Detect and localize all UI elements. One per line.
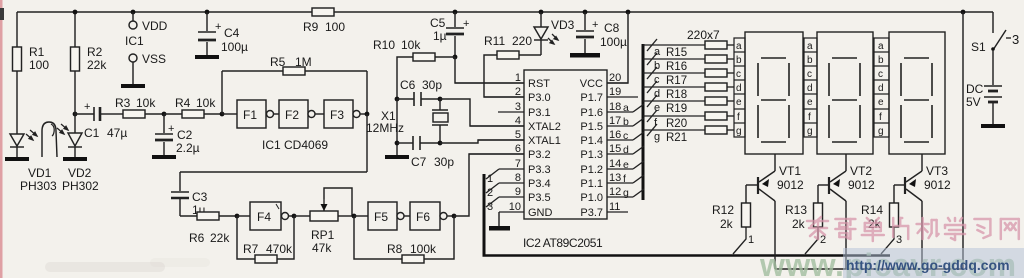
svg-text:a: a: [623, 102, 629, 114]
svg-text:2k: 2k: [720, 217, 734, 231]
wire R2 drop: [74, 12, 76, 47]
svg-text:PH302: PH302: [62, 179, 99, 193]
collector common rail: [775, 268, 963, 270]
svg-text:d: d: [878, 83, 884, 94]
svg-text:R2: R2: [87, 45, 103, 59]
svg-text:220x7: 220x7: [687, 28, 720, 42]
svg-text:P1.5: P1.5: [580, 121, 603, 133]
svg-text:R9: R9: [303, 20, 319, 34]
svg-text:R11: R11: [484, 34, 505, 48]
svg-text:IC1 CD4069: IC1 CD4069: [262, 138, 328, 152]
svg-text:1M: 1M: [295, 55, 312, 69]
svg-text:1µ: 1µ: [433, 29, 447, 43]
transistor VT2 9012: [818, 154, 846, 203]
svg-text:12: 12: [609, 186, 621, 198]
wire P1.6 into segment bus, net a: [633, 104, 644, 112]
resistor R6: [197, 212, 219, 220]
segment row g: wire, slash, resistor R21: [643, 124, 734, 136]
svg-text:20: 20: [609, 72, 621, 84]
node F3 output: [365, 112, 370, 117]
wire F4 to RP1: [294, 215, 310, 217]
RP1 wiper arrow: [323, 199, 325, 211]
capacitor C2: [155, 114, 173, 155]
svg-text:c: c: [807, 69, 812, 80]
IC2 left pin stubs: [455, 83, 524, 212]
wire rail junction to collector rail: [961, 10, 966, 15]
svg-text:C8: C8: [604, 21, 620, 35]
ground C4: [195, 55, 219, 59]
svg-text:30p: 30p: [422, 78, 442, 92]
svg-text:P1.7: P1.7: [580, 92, 603, 104]
svg-text:VD2: VD2: [68, 166, 92, 180]
svg-text:R7: R7: [243, 242, 259, 256]
resistor R4: [182, 110, 204, 118]
svg-text:2: 2: [487, 187, 493, 199]
svg-text:R15: R15: [666, 47, 687, 59]
node F1 input: [220, 112, 225, 117]
svg-text:+: +: [168, 123, 174, 135]
svg-text:C4: C4: [224, 26, 240, 40]
svg-text:R18: R18: [666, 89, 687, 101]
svg-text:R4: R4: [175, 96, 191, 110]
LED VD3: [539, 10, 544, 15]
display DS3 pin column: [874, 38, 889, 137]
svg-text:e: e: [623, 159, 629, 171]
inverter F4: [237, 202, 294, 230]
node C2: [162, 112, 167, 117]
svg-text:g: g: [623, 187, 629, 199]
ground GND pin10: [498, 212, 500, 226]
svg-text:VDD: VDD: [142, 19, 168, 33]
svg-text:VD1: VD1: [28, 166, 52, 180]
svg-text:19: 19: [609, 86, 621, 98]
svg-text:C3: C3: [192, 190, 208, 204]
display DS2 digit segments: [829, 58, 860, 142]
IC2 right pin stubs: [607, 83, 638, 212]
svg-text:2k: 2k: [792, 217, 806, 231]
wire R10 left to ground trunk: [397, 57, 413, 99]
svg-text:+: +: [592, 19, 598, 31]
svg-text:R1: R1: [29, 45, 45, 59]
svg-text:1: 1: [487, 173, 493, 185]
wire P1.5 into segment bus, net b: [633, 118, 644, 126]
wire F6 output to P3.2: [454, 154, 524, 216]
svg-text:3: 3: [1012, 32, 1019, 47]
svg-text:47k: 47k: [312, 241, 332, 255]
node C7 right: [438, 141, 443, 146]
capacitor C5: [453, 10, 458, 15]
display DS1 pin column: [734, 38, 745, 137]
wire RP1 to F5 node: [338, 215, 354, 217]
svg-text:C1: C1: [84, 126, 100, 140]
svg-text:R5: R5: [270, 55, 286, 69]
svg-text:220: 220: [512, 34, 532, 48]
svg-text:100k: 100k: [410, 242, 437, 256]
resistor R13: [814, 203, 823, 227]
node RST: [453, 55, 458, 60]
wire R7 loop: [237, 216, 255, 259]
svg-text:10: 10: [509, 201, 521, 213]
svg-text:100µ: 100µ: [221, 40, 248, 54]
svg-text:22k: 22k: [87, 58, 107, 72]
svg-text:a: a: [736, 41, 742, 52]
svg-text:S1: S1: [971, 40, 986, 54]
svg-text:C6: C6: [400, 78, 416, 92]
svg-text:RP1: RP1: [311, 228, 335, 242]
display DS3 digit segments: [901, 58, 932, 142]
segment row c: wire, slash, resistor R17: [643, 67, 734, 79]
svg-text:10k: 10k: [136, 96, 156, 110]
svg-text:18: 18: [609, 101, 621, 113]
svg-text:R6: R6: [189, 231, 205, 245]
wire R5 loop left: [221, 71, 223, 114]
svg-text:http://www.go-gddq.com: http://www.go-gddq.com: [846, 257, 1010, 273]
svg-text:9012: 9012: [848, 178, 875, 192]
segment row d: wire, slash, resistor R18: [643, 81, 734, 93]
svg-text:1: 1: [748, 234, 754, 246]
svg-text:+: +: [84, 101, 90, 113]
resistor R9 on rail: [312, 8, 334, 16]
svg-text:100µ: 100µ: [600, 35, 627, 49]
svg-text:3: 3: [515, 101, 521, 113]
scan edge artifact left: [0, 0, 3, 278]
wire R5 loop top: [222, 70, 367, 72]
svg-text:VD3: VD3: [551, 18, 575, 32]
svg-text:b: b: [736, 55, 742, 66]
VSS symbol: [129, 54, 137, 62]
svg-text:R19: R19: [666, 103, 687, 115]
svg-text:3: 3: [896, 234, 902, 246]
svg-text:9: 9: [515, 186, 521, 198]
svg-text:R12: R12: [712, 203, 734, 217]
svg-text:R3: R3: [115, 96, 131, 110]
svg-text:5: 5: [515, 129, 521, 141]
wire P3.4 into bus: [486, 183, 499, 193]
svg-text:2.2µ: 2.2µ: [176, 141, 200, 155]
VD1 light arrows: [26, 130, 37, 140]
svg-text:VT2: VT2: [850, 164, 872, 178]
svg-text:470k: 470k: [266, 242, 293, 256]
wire R5 loop right: [366, 71, 368, 114]
svg-text:F6: F6: [416, 210, 430, 224]
svg-text:11: 11: [609, 201, 620, 213]
svg-text:PH303: PH303: [20, 179, 57, 193]
resistor R5: [283, 67, 305, 75]
svg-text:+: +: [215, 21, 221, 33]
ground VSS: [121, 84, 145, 88]
capacitor C7: [397, 136, 440, 150]
node C7 left: [395, 141, 400, 146]
pen mark in F4: [276, 204, 279, 209]
svg-text:d: d: [807, 83, 813, 94]
wire R11 to P3.0: [484, 55, 524, 97]
wire R12 to bus, net 1: [733, 227, 746, 254]
svg-text:47µ: 47µ: [107, 126, 127, 140]
RP1 wiper loop: [324, 188, 352, 216]
ground battery: [992, 103, 994, 124]
svg-text:100: 100: [29, 58, 49, 72]
node C6 left: [395, 97, 400, 102]
node C6 right: [438, 97, 443, 102]
ground VD1: [5, 157, 29, 161]
capacitor C3: [171, 172, 189, 216]
VT1 collector down: [774, 201, 776, 269]
wire R8 loop: [354, 216, 402, 259]
svg-text:6: 6: [515, 143, 521, 155]
svg-text:P3.4: P3.4: [528, 178, 551, 190]
svg-text:2: 2: [515, 86, 521, 98]
svg-text:RST: RST: [528, 78, 550, 90]
top VCC rail: [17, 11, 993, 13]
svg-text:P1.6: P1.6: [580, 107, 603, 119]
svg-text:P1.1: P1.1: [580, 178, 603, 190]
svg-text:9012: 9012: [924, 178, 951, 192]
svg-text:16: 16: [609, 129, 621, 141]
svg-text:8: 8: [515, 172, 521, 184]
svg-text:30p: 30p: [434, 155, 454, 169]
wire F3 output down: [366, 114, 368, 172]
inverter F5: [354, 202, 410, 230]
capacitor C4: [205, 10, 210, 15]
display DS2 pin column: [804, 38, 817, 137]
wire R1 to VD1: [16, 71, 18, 134]
svg-text:g: g: [736, 126, 742, 137]
IC U2 AT89C2051 body: [524, 70, 607, 219]
resistor R7: [255, 255, 277, 263]
ground crystal caps: [385, 155, 409, 159]
battery DC 5V: [992, 50, 994, 85]
svg-text:15: 15: [609, 143, 621, 155]
node F6 output: [452, 214, 457, 219]
svg-text:g: g: [807, 126, 813, 137]
svg-text:c: c: [736, 69, 741, 80]
display DS1 digit segments: [758, 58, 789, 142]
svg-text:VT1: VT1: [779, 164, 801, 178]
svg-text:P1.4: P1.4: [580, 135, 603, 147]
capacitor C8: [583, 10, 588, 15]
watermark blue panel go-gddq: [843, 248, 1024, 278]
svg-text:17: 17: [609, 115, 621, 127]
resistor R11: [497, 51, 519, 59]
svg-text:3: 3: [487, 201, 493, 213]
resistor R2: [71, 47, 80, 71]
VDD symbol: [131, 10, 136, 15]
finger between VD1 and VD2: [42, 122, 57, 157]
display DS3 box: [889, 32, 945, 154]
svg-text:e: e: [878, 97, 884, 108]
inverter F3: [324, 100, 367, 128]
svg-text:4: 4: [515, 115, 521, 127]
junction node R2/VD2/C1: [73, 112, 78, 117]
svg-text:e: e: [807, 97, 813, 108]
svg-text:XTAL1: XTAL1: [528, 135, 561, 147]
inverter F1: [222, 100, 279, 128]
resistor R1: [13, 47, 22, 71]
svg-text:R17: R17: [666, 75, 687, 87]
VT3 collector down: [921, 201, 923, 269]
segment row b: wire, slash, resistor R16: [643, 53, 734, 65]
wire R2 to node: [74, 71, 76, 114]
ground trunk C6/C7: [396, 99, 398, 155]
svg-text:b: b: [878, 55, 884, 66]
inverter F6: [410, 202, 454, 230]
wire P3.3 into bus: [486, 169, 499, 179]
svg-text:d: d: [736, 83, 742, 94]
wire RST node to pin1: [455, 57, 524, 83]
svg-text:a: a: [878, 41, 884, 52]
svg-text:R8: R8: [387, 242, 403, 256]
svg-text:P1.3: P1.3: [580, 149, 603, 161]
wire P1.2 into segment bus, net e: [633, 161, 644, 169]
capacitor C6: [397, 92, 440, 106]
svg-text:GND: GND: [528, 207, 553, 219]
ground C2: [152, 155, 176, 159]
transistor VT3 9012: [894, 154, 922, 203]
svg-text:C7: C7: [411, 155, 427, 169]
svg-text:c: c: [878, 69, 883, 80]
svg-text:F3: F3: [330, 108, 344, 122]
VD2 incoming light arrows: [57, 124, 68, 134]
svg-text:10k: 10k: [401, 38, 421, 52]
crystal X1: [432, 99, 448, 143]
svg-text:DC: DC: [966, 82, 984, 96]
svg-text:F1: F1: [243, 108, 257, 122]
svg-text:F4: F4: [257, 210, 271, 224]
wire C7 to XTAL1: [440, 140, 524, 143]
svg-text:f: f: [879, 112, 882, 123]
node F5 input: [352, 214, 357, 219]
svg-text:XTAL2: XTAL2: [528, 121, 561, 133]
wire R14 to bus, net 3: [881, 227, 894, 254]
VT2 collector down: [845, 201, 847, 269]
wire R1 drop: [16, 12, 18, 47]
svg-text:a: a: [807, 41, 813, 52]
svg-text:g: g: [654, 131, 660, 143]
svg-text:P3.3: P3.3: [528, 164, 551, 176]
svg-text:F2: F2: [285, 108, 299, 122]
wire P3.5 into bus: [486, 197, 499, 207]
svg-text:f: f: [737, 112, 740, 123]
svg-text:P3.0: P3.0: [528, 92, 551, 104]
ground C8: [570, 53, 600, 58]
svg-text:1: 1: [515, 72, 521, 84]
svg-text:R14: R14: [861, 203, 883, 217]
svg-text:100: 100: [325, 20, 345, 34]
IC2 right pin numbers: [609, 72, 621, 213]
VD3 light arrows: [548, 34, 558, 44]
svg-text:10k: 10k: [196, 96, 216, 110]
svg-text:IC1: IC1: [125, 34, 144, 48]
scan smudge bottom left: [45, 262, 165, 272]
svg-text:e: e: [736, 97, 742, 108]
IC2 left pin names: [528, 78, 561, 219]
bus wire bundle P3.3-P3.5: [483, 174, 486, 255]
segment bus vertical: [642, 44, 645, 200]
resistor R14: [890, 203, 899, 227]
svg-text:P3.5: P3.5: [528, 192, 551, 204]
svg-text:9012: 9012: [777, 178, 804, 192]
segment row f: wire, slash, resistor R20: [643, 110, 734, 122]
svg-text:VT3: VT3: [926, 164, 948, 178]
svg-text:c: c: [623, 130, 628, 142]
svg-text:C2: C2: [177, 128, 193, 142]
svg-text:R21: R21: [666, 132, 687, 144]
segment row e: wire, slash, resistor R19: [643, 95, 734, 107]
switch S1: [992, 12, 994, 33]
wire P1.0 into segment bus, net g: [633, 189, 644, 197]
wire R13 to bus, net 2: [805, 227, 818, 254]
svg-text:P3.7: P3.7: [580, 207, 603, 219]
resistor R3: [123, 110, 145, 118]
wire P1.1 into segment bus, net f: [633, 175, 644, 183]
svg-text:7: 7: [515, 158, 521, 170]
svg-text:P3.1: P3.1: [528, 107, 551, 119]
svg-text:f: f: [808, 112, 811, 123]
transistor VT1 9012: [746, 154, 775, 203]
wire to C3: [180, 171, 367, 173]
IC2 left pin numbers: [509, 72, 521, 213]
resistor R12: [742, 203, 751, 227]
potentiometer RP1: [310, 211, 338, 221]
svg-text:14: 14: [609, 158, 621, 170]
resistor R10: [413, 53, 435, 61]
svg-text:d: d: [623, 144, 629, 156]
ground VD2: [63, 157, 87, 161]
display DS1 box: [745, 32, 803, 154]
capacitor C1: [75, 107, 113, 121]
svg-text:b: b: [807, 55, 813, 66]
node F4 input: [235, 214, 240, 219]
wire P1.4 into segment bus, net c: [633, 132, 644, 140]
svg-text:VCC: VCC: [580, 78, 603, 90]
svg-text:f: f: [623, 173, 626, 185]
svg-text:P3.2: P3.2: [528, 149, 551, 161]
wire VCC rail to pin20: [626, 10, 631, 15]
wire R11 to VD3: [519, 54, 541, 56]
svg-text:22k: 22k: [210, 231, 230, 245]
segment row a: wire, slash, resistor R15: [643, 39, 734, 51]
watermark pink CJK (drawn strokes): [807, 217, 1019, 241]
svg-text:12MHz: 12MHz: [366, 121, 404, 135]
svg-text:P1.2: P1.2: [580, 164, 603, 176]
node F4 output: [292, 214, 297, 219]
resistor R8: [402, 255, 424, 263]
IC2 right pin names: [580, 78, 603, 219]
photodiode VD2: [68, 114, 82, 157]
svg-text:R13: R13: [785, 203, 807, 217]
svg-text:P1.0: P1.0: [580, 192, 603, 204]
wire C3 to R6: [180, 215, 197, 217]
svg-text:R10: R10: [373, 38, 395, 52]
inverter F2: [279, 100, 324, 128]
svg-text:R16: R16: [666, 61, 687, 73]
wire P1.3 into segment bus, net d: [633, 146, 644, 154]
LED VD1: [10, 134, 24, 157]
svg-text:+: +: [463, 18, 469, 30]
svg-text:IC2 AT89C2051: IC2 AT89C2051: [523, 236, 603, 250]
svg-text:b: b: [623, 116, 629, 128]
svg-text:C5: C5: [430, 16, 446, 30]
wire C6 to XTAL2: [440, 99, 524, 126]
svg-text:VSS: VSS: [142, 52, 166, 66]
svg-text:R20: R20: [666, 118, 687, 130]
svg-text:13: 13: [609, 172, 621, 184]
svg-text:F5: F5: [374, 210, 388, 224]
svg-text:g: g: [878, 126, 884, 137]
svg-text:5V: 5V: [966, 95, 981, 109]
display DS2 box: [817, 32, 873, 154]
